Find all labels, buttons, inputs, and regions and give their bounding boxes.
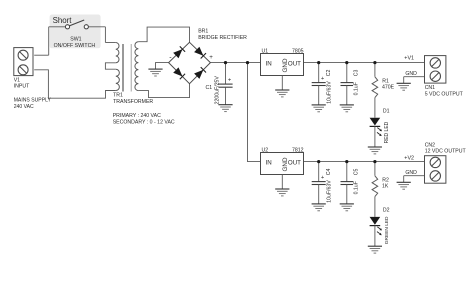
svg-text:TR1: TR1	[113, 93, 123, 99]
svg-text:D2: D2	[383, 208, 390, 214]
svg-text:CN2: CN2	[425, 143, 435, 149]
svg-text:GND: GND	[405, 71, 417, 77]
svg-text:ON/OFF SWITCH: ON/OFF SWITCH	[54, 43, 96, 49]
svg-text:R2: R2	[382, 178, 389, 184]
svg-text:U2: U2	[262, 148, 269, 154]
svg-text:240 VAC: 240 VAC	[14, 104, 34, 110]
svg-text:PRIMARY : 240 VAC: PRIMARY : 240 VAC	[113, 113, 161, 119]
svg-text:470E: 470E	[382, 85, 395, 91]
svg-text:7812: 7812	[292, 148, 304, 154]
svg-text:C4: C4	[326, 168, 332, 175]
svg-text:IN: IN	[266, 159, 272, 166]
svg-text:5 VDC OUTPUT: 5 VDC OUTPUT	[425, 91, 464, 97]
svg-text:C5: C5	[353, 168, 359, 175]
svg-text:INPUT: INPUT	[14, 84, 30, 90]
svg-text:Short: Short	[53, 16, 73, 25]
svg-text:+V1: +V1	[404, 55, 414, 61]
svg-text:7805: 7805	[292, 49, 304, 55]
svg-text:R1: R1	[382, 79, 389, 85]
svg-text:10uF/63V: 10uF/63V	[326, 81, 332, 104]
svg-text:10uF/63V: 10uF/63V	[326, 180, 332, 203]
svg-text:CN1: CN1	[425, 85, 435, 91]
svg-text:GND: GND	[282, 58, 289, 72]
svg-text:IN: IN	[266, 60, 272, 67]
svg-text:GND: GND	[405, 170, 417, 176]
svg-text:C3: C3	[353, 69, 359, 76]
svg-text:GREEN LED: GREEN LED	[384, 216, 390, 244]
svg-text:MAINS SUPPLY: MAINS SUPPLY	[14, 98, 52, 104]
svg-text:OUT: OUT	[288, 159, 301, 166]
svg-text:0.1uF: 0.1uF	[353, 181, 359, 194]
svg-text:2200uF/25V: 2200uF/25V	[214, 76, 220, 105]
svg-text:RED LED: RED LED	[384, 121, 390, 143]
svg-text:SECONDARY : 0 - 12 VAC: SECONDARY : 0 - 12 VAC	[113, 119, 175, 125]
svg-text:1K: 1K	[382, 184, 389, 190]
svg-text:C2: C2	[326, 69, 332, 76]
svg-text:TRANSFORMER: TRANSFORMER	[113, 99, 153, 105]
svg-text:U1: U1	[262, 49, 269, 55]
svg-text:C1: C1	[206, 85, 213, 91]
svg-text:0.1uF: 0.1uF	[353, 82, 359, 95]
svg-text:D1: D1	[383, 109, 390, 115]
svg-text:BRIDGE RECTIFIER: BRIDGE RECTIFIER	[198, 35, 247, 41]
svg-text:12 VDC OUTPUT: 12 VDC OUTPUT	[425, 149, 467, 155]
svg-text:+: +	[209, 54, 213, 61]
svg-text:OUT: OUT	[288, 60, 301, 67]
svg-text:+V2: +V2	[404, 155, 414, 161]
svg-text:SW1: SW1	[70, 37, 81, 43]
svg-text:BR1: BR1	[198, 29, 208, 35]
svg-text:GND: GND	[282, 157, 289, 171]
